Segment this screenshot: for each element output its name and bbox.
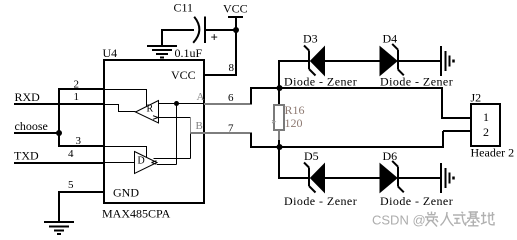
wire pin4 to D input bbox=[105, 162, 135, 164]
wire A riser bbox=[250, 88, 252, 104]
wire A to J2 pin1 bbox=[441, 87, 471, 118]
junction A internal bbox=[174, 101, 179, 106]
watermark glyph ru bbox=[441, 212, 454, 226]
connector J2 bbox=[471, 104, 500, 146]
svg-text:CSDN @: CSDN @ bbox=[372, 213, 426, 228]
svg-text:0.1uF: 0.1uF bbox=[175, 46, 203, 60]
wire A to D output bbox=[157, 104, 177, 165]
svg-text:B: B bbox=[196, 120, 203, 132]
svg-text:Diode - Zener: Diode - Zener bbox=[284, 75, 357, 89]
svg-text:TXD: TXD bbox=[14, 149, 39, 163]
svg-text:C11: C11 bbox=[174, 1, 194, 15]
diode D3 zener bbox=[304, 46, 325, 76]
diode D4 zener bbox=[380, 44, 404, 75]
diode D6 zener bbox=[380, 161, 404, 192]
svg-text:GND: GND bbox=[113, 186, 139, 200]
wire TXD to pin 4 bbox=[14, 162, 105, 164]
wire B gray segment bbox=[190, 118, 192, 134]
wire C11 right lead bbox=[205, 29, 237, 31]
watermark glyph di bbox=[481, 212, 495, 225]
wire R input A bbox=[159, 103, 204, 105]
wire B to diode row 2 bbox=[278, 147, 280, 178]
svg-text:+: + bbox=[211, 30, 218, 45]
svg-text:Diode - Zener: Diode - Zener bbox=[380, 75, 453, 89]
junction B R16 bbox=[277, 144, 283, 150]
junction A R16 bbox=[277, 85, 283, 91]
svg-text:2: 2 bbox=[483, 125, 489, 139]
wire B riser bbox=[250, 133, 252, 147]
junction choose bbox=[56, 130, 62, 136]
resistor R16 bbox=[272, 87, 284, 148]
wire pin2 to R enable bbox=[105, 90, 147, 107]
wire diode row 1 bbox=[278, 60, 440, 62]
junction VCC C11 bbox=[233, 27, 239, 33]
wire pin3 to D enable bbox=[105, 147, 147, 158]
watermark glyph ji bbox=[467, 212, 480, 226]
wire A to diode row 1 bbox=[278, 61, 280, 88]
svg-text:VCC: VCC bbox=[223, 2, 248, 16]
svg-text:D4: D4 bbox=[383, 32, 398, 46]
svg-text:2: 2 bbox=[74, 79, 80, 91]
capacitor C11 flat plate bbox=[204, 17, 206, 44]
svg-text:Diode - Zener: Diode - Zener bbox=[380, 194, 453, 208]
diode D5 zener bbox=[304, 163, 325, 193]
wire pin 5 bbox=[58, 191, 105, 221]
svg-text:8: 8 bbox=[229, 62, 235, 74]
svg-text:120: 120 bbox=[285, 116, 303, 130]
wire R input B bbox=[154, 118, 191, 159]
ground row 2 bbox=[441, 163, 454, 193]
ground row 1 bbox=[441, 46, 454, 76]
wire C11 left lead bbox=[161, 29, 194, 31]
svg-text:RXD: RXD bbox=[15, 90, 41, 104]
capacitor C11 curved plate bbox=[193, 17, 199, 43]
svg-text:U4: U4 bbox=[103, 46, 118, 60]
watermark glyph qian bbox=[425, 212, 438, 227]
svg-text:7: 7 bbox=[228, 123, 234, 135]
wire pin 3 bbox=[58, 145, 105, 147]
wire pin 6 A stub bbox=[204, 103, 252, 105]
svg-text:1: 1 bbox=[483, 110, 489, 124]
wire B to J2 pin2 bbox=[443, 131, 471, 148]
svg-text:3: 3 bbox=[76, 135, 82, 147]
wire R output to pin1 bbox=[105, 105, 136, 112]
power VCC bbox=[223, 2, 248, 76]
IC U4 body bbox=[104, 60, 204, 203]
svg-text:D6: D6 bbox=[383, 149, 398, 163]
svg-text:A: A bbox=[197, 91, 205, 103]
svg-text:D5: D5 bbox=[304, 149, 319, 163]
ground C11 bbox=[147, 46, 177, 58]
ground pin 5 bbox=[44, 222, 74, 234]
watermark glyph shi bbox=[453, 212, 466, 225]
driver D triangle bbox=[135, 152, 158, 174]
svg-text:R16: R16 bbox=[285, 103, 305, 117]
wire pin 8 bbox=[204, 74, 237, 76]
wire choose bbox=[14, 132, 59, 134]
svg-text:VCC: VCC bbox=[171, 68, 196, 82]
wire net B bbox=[250, 146, 443, 148]
svg-text:4: 4 bbox=[68, 148, 74, 160]
wire pin 7 B stub bbox=[191, 132, 253, 134]
svg-text:D: D bbox=[138, 156, 145, 167]
svg-text:MAX485CPA: MAX485CPA bbox=[102, 207, 171, 221]
wire pin 2 bbox=[58, 88, 105, 90]
wire C11 to ground bbox=[161, 29, 163, 45]
receiver R triangle bbox=[136, 101, 159, 124]
svg-text:6: 6 bbox=[228, 92, 234, 104]
svg-text:5: 5 bbox=[68, 179, 74, 191]
svg-text:J2: J2 bbox=[471, 91, 482, 105]
svg-text:R: R bbox=[147, 104, 154, 115]
wire diode row 2 bbox=[278, 177, 440, 179]
wire net A bbox=[250, 87, 442, 89]
svg-text:choose: choose bbox=[15, 119, 48, 133]
svg-text:D3: D3 bbox=[303, 32, 318, 46]
svg-text:Header 2: Header 2 bbox=[471, 146, 515, 160]
wire RE-DE vertical bbox=[58, 88, 60, 147]
wire RXD to pin 1 bbox=[14, 103, 105, 105]
svg-text:1: 1 bbox=[74, 91, 80, 103]
svg-text:Diode - Zener: Diode - Zener bbox=[284, 194, 357, 208]
